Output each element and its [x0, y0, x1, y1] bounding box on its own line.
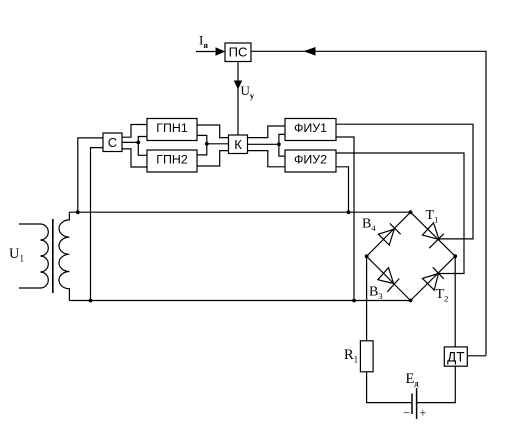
wire: ФИУ1 out1 gate lead to T1: [336, 124, 473, 239]
wire: top bus from transformer to bridge top vertex: [69, 211, 410, 213]
junction dot bottom bus / С input: [89, 299, 93, 303]
svg-text:ФИУ2: ФИУ2: [294, 152, 327, 166]
svg-text:U1: U1: [9, 246, 24, 264]
block ПС: [225, 43, 251, 62]
arrowhead down on Uу wire: [234, 81, 242, 90]
block К: [229, 135, 248, 154]
battery Eд long plate: [411, 394, 413, 415]
svg-text:ДТ: ДТ: [447, 349, 464, 364]
wire: ГПН1 out2 down to middle junction: [197, 135, 207, 143]
wire: junction branch down to ГПН2 upper input: [138, 142, 147, 155]
block ФИУ1: [285, 119, 336, 141]
bridge arm top-left (B4 arm): [367, 212, 411, 256]
svg-text:B3: B3: [369, 285, 383, 302]
svg-text:Iя: Iя: [199, 33, 208, 51]
wire: ФИУ1 out2 down to bottom bus: [336, 137, 354, 301]
thyristor T2 triangle: [422, 274, 438, 291]
transformer U1 primary winding: [19, 224, 48, 288]
wire: junction branch up to ГПН1 lower input: [138, 137, 147, 143]
svg-text:T1: T1: [426, 208, 439, 225]
bridge arm top-right (T1 arm): [411, 212, 456, 256]
wire: К out2 middle to ФИУ junction: [248, 143, 279, 145]
thyristor T2 cathode bar: [433, 267, 444, 279]
wire: ГПН2 out1 up to middle junction: [197, 144, 207, 155]
battery Eд short plate: [416, 388, 418, 419]
block ГПН1: [147, 119, 197, 141]
wire: R1 bottom to battery minus: [367, 372, 412, 403]
transformer U1 secondary winding: [59, 212, 69, 300]
resistor R1 body: [360, 341, 373, 372]
node: bridge top vertex: [409, 210, 413, 214]
node: bridge bottom vertex: [409, 299, 413, 303]
wire: С out1 to ГПН1 upper input: [122, 125, 147, 138]
thyristor T1 triangle: [422, 223, 439, 240]
arrowhead pointing left on feedback wire: [304, 47, 316, 56]
junction dot top bus / ФИУ2 lead: [347, 210, 351, 214]
wire: С out2 middle to junction: [122, 141, 138, 143]
block ГПН2: [147, 150, 197, 172]
diode B3 triangle: [378, 268, 394, 284]
junction dot top bus / С input: [76, 210, 80, 214]
svg-text:ПС: ПС: [229, 45, 248, 60]
wire: bottom bus from transformer to bridge bottom vertex: [69, 300, 410, 302]
node: bridge left vertex: [365, 254, 369, 258]
block ФИУ2: [285, 150, 336, 172]
wire: ГПН1 out1 to К upper input: [197, 125, 229, 138]
svg-text:T2: T2: [436, 287, 449, 304]
diode B4 triangle: [378, 229, 394, 245]
svg-text:ГПН2: ГПН2: [156, 152, 188, 166]
wire: ФИУ2 out1 gate lead to T2: [336, 153, 464, 274]
bridge arm bottom-right (T2 arm): [411, 256, 456, 300]
wire: battery plus to ДТ bottom: [417, 366, 455, 402]
svg-text:R1: R1: [344, 347, 358, 365]
svg-text:+: +: [420, 406, 427, 420]
wire: К out1 to ФИУ1 upper input: [248, 126, 286, 138]
svg-text:ГПН1: ГПН1: [156, 121, 188, 135]
wire: ПС down to К (Uу): [237, 62, 239, 136]
block С: [103, 133, 122, 152]
svg-text:Eд: Eд: [406, 371, 419, 388]
wire: bridge left vertex down to R1: [366, 256, 368, 341]
svg-text:С: С: [108, 135, 117, 150]
junction dot ФИУ middle branch: [277, 142, 281, 146]
wire: ФИУ2 out2 down to top bus: [336, 167, 349, 212]
wire: С left input 1 from top bus: [78, 138, 103, 212]
svg-text:B4: B4: [362, 217, 376, 234]
wire: ДТ output to right feedback riser: [467, 355, 486, 357]
svg-text:Uу: Uу: [241, 83, 255, 101]
arrowhead into ПС: [216, 47, 226, 56]
svg-text:ФИУ1: ФИУ1: [294, 121, 327, 135]
wire: Iя input into ПС: [196, 51, 216, 53]
bridge arm bottom-left (B3 arm): [367, 256, 411, 300]
wire: ФИУ junction branch up to ФИУ1 lower input: [279, 134, 285, 144]
wire: С left input 2 from bottom bus: [91, 148, 104, 301]
wire: bridge right vertex down to ДТ top: [454, 256, 456, 347]
diode B4 cathode bar: [390, 223, 401, 234]
block ДТ: [444, 347, 467, 366]
thyristor T1 cathode bar: [429, 234, 444, 249]
wire: ФИУ junction branch down to ФИУ2 upper input: [279, 144, 285, 156]
wire: С out3 to ГПН2 lower input: [122, 149, 147, 167]
node: bridge right vertex: [453, 254, 457, 258]
junction dot bottom bus / ФИУ1 lead: [352, 299, 356, 303]
junction dot ГПН middle merge: [205, 142, 209, 146]
transformer core: [52, 219, 54, 293]
wire: ГПН2 out2 to К lower input: [197, 151, 229, 166]
wire: feedback top horizontal from right edge to ПС: [251, 51, 486, 355]
svg-text:К: К: [234, 137, 242, 152]
wire: К out3 to ФИУ2 lower input: [248, 151, 286, 167]
junction dot С middle branch: [136, 141, 140, 145]
wire: middle junction to К: [207, 143, 229, 145]
diode B3 cathode bar: [387, 279, 399, 292]
svg-text:–: –: [403, 405, 411, 419]
